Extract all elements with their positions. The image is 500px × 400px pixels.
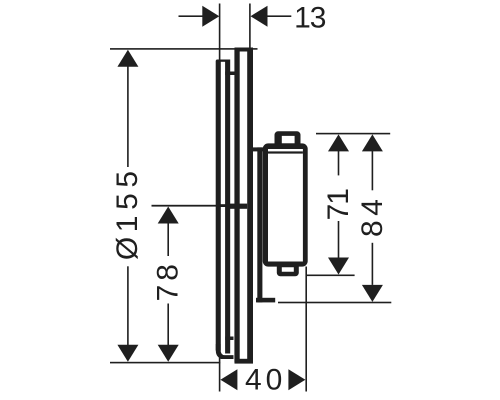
- dim 13 right tail line: [267, 15, 291, 17]
- svg-text:40: 40: [245, 363, 286, 396]
- svg-text:78: 78: [152, 260, 185, 301]
- dim 71 dim line bottom segment: [338, 221, 340, 258]
- dim 13 left tail line: [179, 15, 204, 17]
- dim 71 top arrow: [328, 134, 349, 151]
- dia155 bottom extension line: [110, 362, 220, 364]
- dim 71 bottom extension line: [306, 275, 354, 277]
- dim 78 top arrow: [158, 207, 179, 224]
- sleeve front line: [247, 49, 253, 363]
- knob bottom tab: [277, 262, 299, 276]
- dims 71 84 top extension line: [316, 133, 390, 135]
- dim 40 right extension line: [305, 267, 307, 392]
- dim 13 left extension line: [219, 4, 221, 61]
- dia155 bottom arrow: [117, 345, 138, 362]
- knob top tab: [275, 131, 301, 147]
- dim 84 bottom extension line: [278, 302, 391, 304]
- svg-text:84: 84: [356, 195, 389, 237]
- dim 13 right arrow: [251, 6, 268, 27]
- dim 71 bottom arrow: [328, 258, 349, 275]
- dim 40 left extension line: [219, 351, 221, 392]
- dim 13 right extension line: [249, 4, 251, 49]
- plate center extension line: [152, 205, 217, 207]
- dia155 dim line top segment: [127, 60, 129, 167]
- dim 78 dim line bottom segment: [167, 304, 169, 347]
- knob body: [263, 143, 308, 266]
- plate top cap: [217, 60, 231, 62]
- dim 84 bottom arrow: [362, 285, 383, 302]
- dim 84 dim line top segment: [372, 150, 374, 190]
- knob inner top line: [268, 151, 303, 153]
- dim 40 left arrow: [220, 369, 237, 390]
- valve sleeve foot: [256, 298, 275, 303]
- plate center tick: [216, 204, 235, 207]
- dim 78 bottom arrow: [158, 345, 179, 362]
- plate top tick: [225, 72, 235, 76]
- plate left edge (wall side): [216, 60, 221, 352]
- svg-text:155: 155: [111, 165, 144, 232]
- dim 71 dim line top segment: [338, 150, 340, 175]
- valve sleeve vertical: [257, 147, 262, 302]
- plate bottom cap: [216, 344, 234, 359]
- dim 13 left arrow: [202, 6, 219, 27]
- svg-text:Ø: Ø: [111, 237, 144, 260]
- svg-text:71: 71: [322, 189, 355, 221]
- sleeve rear line: [234, 49, 239, 363]
- dim 40 right arrow: [288, 369, 305, 390]
- plate bottom tick: [225, 337, 233, 341]
- stem center tick thick: [229, 204, 248, 209]
- plate right edge: [225, 60, 230, 354]
- dia155 dim line bottom segment: [127, 266, 129, 346]
- dim 84 top arrow: [362, 134, 383, 151]
- svg-text:13: 13: [294, 2, 326, 35]
- sleeve bottom cap: [235, 359, 254, 364]
- dim 84 dim line bottom segment: [372, 243, 374, 285]
- dia155 top arrow: [117, 50, 138, 67]
- valve sleeve top bar: [253, 147, 264, 151]
- sleeve top cap: [235, 48, 254, 52]
- dim 78 dim line top segment: [167, 222, 169, 256]
- dia155 top extension line: [110, 48, 258, 50]
